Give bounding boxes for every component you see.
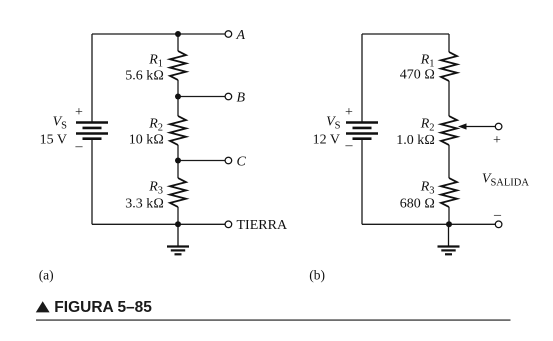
svg-text:12 V: 12 V	[313, 133, 340, 148]
svg-text:+: +	[75, 105, 83, 120]
svg-text:3.3 kΩ: 3.3 kΩ	[125, 196, 164, 211]
svg-text:R3: R3	[420, 180, 435, 197]
svg-text:(a): (a)	[39, 268, 54, 283]
svg-text:10 kΩ: 10 kΩ	[129, 133, 164, 148]
svg-text:1.0 kΩ: 1.0 kΩ	[396, 133, 435, 148]
svg-text:VS: VS	[53, 115, 68, 132]
svg-text:680 Ω: 680 Ω	[400, 196, 435, 211]
svg-text:B: B	[237, 90, 246, 105]
svg-text:VS: VS	[326, 115, 341, 132]
svg-text:+: +	[345, 105, 353, 120]
svg-text:15 V: 15 V	[40, 133, 67, 148]
svg-text:C: C	[237, 154, 247, 169]
svg-text:VSALIDA: VSALIDA	[482, 172, 529, 189]
svg-text:FIGURA 5–85: FIGURA 5–85	[54, 299, 152, 316]
svg-text:–: –	[75, 139, 84, 154]
svg-text:A: A	[236, 28, 246, 43]
svg-text:R1: R1	[148, 53, 163, 70]
svg-text:R2: R2	[148, 116, 163, 133]
svg-text:5.6 kΩ: 5.6 kΩ	[125, 69, 164, 84]
svg-text:+: +	[493, 133, 501, 148]
svg-text:–: –	[345, 138, 354, 153]
svg-text:470 Ω: 470 Ω	[400, 67, 435, 82]
svg-text:R2: R2	[420, 116, 435, 133]
svg-text:TIERRA: TIERRA	[237, 218, 288, 233]
svg-text:(b): (b)	[309, 268, 325, 283]
svg-text:–: –	[493, 208, 502, 223]
svg-text:R3: R3	[148, 180, 163, 197]
